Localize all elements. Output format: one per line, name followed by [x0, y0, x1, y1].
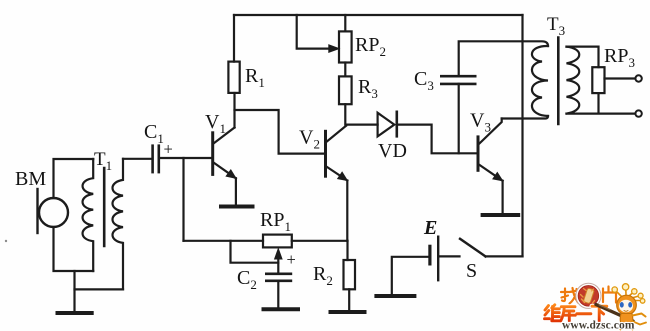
arrow RP2 wiper — [329, 45, 339, 52]
wire RP2 to R3 — [344, 63, 346, 77]
capacitor C1 — [151, 146, 154, 172]
weiku text halo — [545, 305, 607, 321]
svg-text:R2: R2 — [313, 263, 333, 288]
potentiometer RP1 — [263, 235, 292, 248]
svg-text:VD: VD — [378, 140, 407, 162]
transformer T1 secondary coil — [113, 159, 124, 290]
arrow RP1 wiper — [275, 249, 282, 259]
wire V1 collector to V2 base — [235, 110, 325, 154]
wire top supply rail — [234, 14, 523, 16]
svg-text:T3: T3 — [547, 14, 565, 38]
svg-text:V1: V1 — [205, 111, 226, 136]
terminal lower — [635, 110, 641, 116]
wire C2 to ground — [277, 281, 279, 307]
ground under V1 emitter — [221, 205, 253, 209]
character pian (片) — [603, 287, 616, 303]
emitter arrow V2 — [338, 172, 348, 180]
wire battery left — [392, 257, 429, 294]
potentiometer RP3 — [592, 67, 604, 93]
capacitor C3 — [441, 75, 475, 78]
svg-text:R1: R1 — [245, 65, 265, 90]
wire R2 bottom — [348, 289, 350, 310]
wire battery right to switch — [440, 255, 460, 257]
diode VD — [346, 123, 378, 125]
microphone BM — [39, 198, 68, 227]
electrode bar of BM — [36, 189, 38, 233]
resistor R3 — [339, 76, 352, 104]
wire T1 bottom to ground — [73, 271, 75, 313]
weiku text (维库一下) — [545, 305, 607, 321]
scan speck — [5, 240, 7, 242]
transistor V3 — [477, 137, 480, 170]
svg-text:V3: V3 — [470, 110, 491, 135]
capacitor C2 — [266, 272, 291, 275]
character pian (片) halo — [603, 287, 616, 303]
svg-text:T1: T1 — [94, 149, 112, 173]
svg-text:RP3: RP3 — [604, 45, 635, 70]
svg-text:S: S — [466, 260, 477, 282]
svg-text:RP2: RP2 — [355, 34, 386, 59]
wire right supply rail — [521, 15, 523, 256]
resistor R2 — [344, 260, 356, 289]
mascot legs — [621, 321, 647, 330]
character zhao (找) halo — [561, 288, 579, 304]
svg-text:C2: C2 — [237, 267, 257, 292]
ground under T1 — [58, 311, 92, 315]
wire BM top to T1 primary — [54, 159, 94, 198]
svg-text:R3: R3 — [358, 76, 378, 101]
wire RP1 left — [184, 240, 264, 242]
svg-text:E: E — [423, 217, 437, 239]
emitter arrow V1 — [226, 170, 236, 178]
ground under V3 emitter — [483, 213, 519, 217]
wire R2 top — [346, 241, 348, 260]
wire rail to RP2 top — [344, 15, 346, 31]
ground under battery — [376, 294, 414, 298]
seal chip graphic — [583, 288, 594, 304]
svg-text:www.dzsc.com: www.dzsc.com — [562, 320, 635, 331]
node C1-RP1 junction drop — [182, 158, 184, 241]
mascot crown balls — [612, 284, 645, 304]
wire RP3 wiper to terminal — [605, 77, 636, 79]
wire RP3 bottom / T3 secondary bottom — [567, 93, 636, 114]
svg-text:C1: C1 — [144, 121, 164, 146]
transformer T1 core — [103, 168, 106, 246]
wire V1 collector to R1 — [233, 93, 235, 128]
pen of mascot — [596, 305, 633, 322]
wire C3 bottom to V3 base — [458, 84, 460, 153]
watermark logo — [545, 283, 647, 331]
wire RP1 right to R2 — [292, 240, 348, 242]
svg-text:+: + — [164, 140, 173, 159]
mascot head — [617, 295, 637, 315]
mascot crown stems — [616, 289, 642, 301]
character zhao (找) — [561, 288, 579, 304]
transformer T3 core — [557, 38, 560, 125]
wire RP1 wiper to C2 — [277, 252, 279, 274]
svg-text:+: + — [287, 250, 296, 269]
wire R1 to rail — [233, 15, 235, 62]
resistor R1 — [228, 62, 239, 93]
wire T1 secondary to C1 — [123, 158, 152, 160]
wire T1 secondary bottom — [75, 288, 124, 290]
wire R3 to V2 collector — [344, 104, 346, 124]
switch S blade — [460, 239, 486, 257]
svg-text:V2: V2 — [299, 127, 320, 152]
mascot body — [620, 314, 633, 326]
seal red disc — [578, 286, 599, 307]
transformer T1 primary coil — [83, 159, 94, 271]
mascot face — [619, 300, 633, 312]
ground under C2 — [264, 307, 299, 311]
potentiometer RP2 — [339, 31, 352, 62]
seal outer ring — [576, 283, 601, 308]
mascot arm right — [633, 314, 646, 317]
ground under R2 — [331, 310, 365, 314]
wire switch to rail — [486, 255, 523, 257]
svg-text:RP1: RP1 — [260, 209, 291, 234]
wire T3 secondary top to RP3 — [567, 47, 599, 68]
wire V3 collector to T3 primary bottom — [502, 116, 548, 119]
svg-text:BM: BM — [15, 168, 46, 190]
wire C1 to V1 base — [160, 157, 212, 159]
wire C3 top to T3 primary — [459, 41, 548, 76]
wire RP1 bypass — [231, 241, 279, 263]
transformer T3 primary coil — [532, 46, 548, 116]
mascot eyes — [620, 302, 624, 308]
transformer T3 secondary coil — [567, 47, 580, 114]
transistor V1 — [211, 133, 214, 175]
emitter arrow V3 — [493, 173, 503, 181]
wire rail to RP2 wiper — [297, 15, 330, 49]
transistor V2 — [324, 131, 327, 176]
svg-text:C3: C3 — [414, 68, 434, 93]
wire BM bottom — [54, 227, 94, 271]
battery E — [428, 246, 431, 264]
terminal upper — [635, 75, 641, 81]
